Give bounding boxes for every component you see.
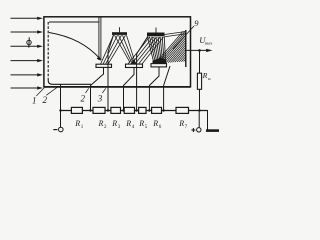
junction dot output <box>198 49 201 52</box>
fan D2 to D3 <box>115 35 136 62</box>
label R7 <box>178 119 188 130</box>
node Rn/plus <box>198 109 200 111</box>
svg-text:R: R <box>98 119 104 128</box>
cathode lead <box>60 84 62 110</box>
resistor R3 <box>111 107 121 113</box>
fan D3 to D4 <box>128 37 164 64</box>
node dynode5 <box>148 109 150 111</box>
D4 fan convergence (black) <box>153 58 167 64</box>
resistor R2 <box>93 107 105 113</box>
resistor R6 <box>152 107 162 113</box>
label U_vyh <box>199 35 213 46</box>
node cathode <box>59 109 61 111</box>
label R5 <box>138 119 148 130</box>
label R6 <box>152 119 162 130</box>
flux label Phi <box>27 37 31 47</box>
svg-text:R: R <box>138 119 144 128</box>
dynode D5 <box>151 64 167 67</box>
svg-text:R: R <box>125 119 131 128</box>
svg-text:1: 1 <box>32 96 37 106</box>
electron trajectory (cathode to dynode 1) <box>49 33 100 60</box>
resistor R1 <box>71 107 82 113</box>
node dynode3 <box>122 109 124 111</box>
dynode D3 <box>126 64 143 67</box>
D2 stub <box>119 27 121 32</box>
D3 crown arrowheads <box>131 60 137 64</box>
inner top electrode line <box>49 21 100 23</box>
plus terminal <box>198 111 200 128</box>
D2 lead <box>108 35 114 111</box>
svg-text:R: R <box>74 119 80 128</box>
minus terminal <box>60 111 62 128</box>
resistor R7 <box>176 107 189 113</box>
focusing diaphragm (double line) <box>98 18 100 61</box>
anode leader line to label 9 <box>173 26 194 49</box>
dynode D2 <box>112 32 127 35</box>
label R3 <box>111 119 121 130</box>
node dynode6 <box>162 109 164 111</box>
anode <box>185 30 187 67</box>
svg-text:2: 2 <box>81 93 86 103</box>
envelope bottom reinforcement <box>44 86 191 88</box>
ground <box>200 111 208 130</box>
fan D4 to D5 (dense) <box>148 37 166 62</box>
svg-text:R: R <box>152 119 158 128</box>
anode-side lead <box>164 66 170 111</box>
svg-text:3: 3 <box>97 93 103 103</box>
output line U_vyh <box>186 49 208 51</box>
envelope (tube bulb) <box>44 17 191 87</box>
label R4 <box>125 119 135 130</box>
node dynode4 <box>135 109 137 111</box>
svg-text:R: R <box>178 119 184 128</box>
photocathode bottom return <box>48 81 91 85</box>
D1 lead <box>91 68 104 111</box>
label R1 <box>74 119 84 130</box>
dynode D4 <box>147 33 165 37</box>
svg-text:вых: вых <box>205 40 213 45</box>
D3 lead <box>124 68 135 111</box>
node dynode1 <box>89 109 91 111</box>
D4 lead <box>137 36 148 110</box>
photocathode dashed layer (left wall) <box>47 22 49 81</box>
node dynode2 <box>107 109 109 111</box>
D4 stub <box>155 28 157 33</box>
svg-text:R: R <box>202 71 208 80</box>
svg-text:R: R <box>111 119 117 128</box>
light flux arrows <box>11 18 39 88</box>
fan D1 to D2 <box>101 35 126 64</box>
resistor R4 <box>124 107 134 113</box>
bottom rail <box>61 110 208 112</box>
dynode D1 <box>96 64 112 67</box>
load resistor Rn <box>199 50 201 73</box>
resistor R5 <box>139 107 146 113</box>
svg-text:2: 2 <box>43 95 48 105</box>
svg-text:9: 9 <box>194 18 199 28</box>
label R2 <box>98 119 108 130</box>
fan D5 to anode (dense hatch) <box>155 31 186 63</box>
D5 lead <box>149 67 159 111</box>
